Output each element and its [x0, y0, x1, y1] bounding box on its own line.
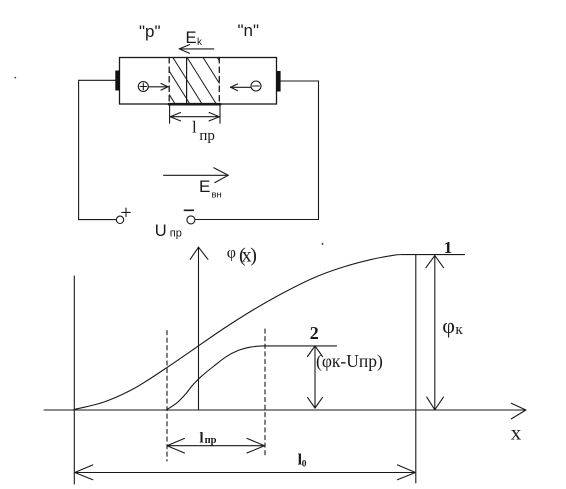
label lpr (bottom): [200, 431, 217, 447]
dimension arrow lpr (bottom, double headed): [167, 438, 265, 453]
depletion region hatch: [132, 58, 247, 105]
dimension arrow lpr (top, double headed): [170, 113, 219, 121]
svg-text:1: 1: [444, 238, 453, 257]
svg-text:(φк-Uпр): (φк-Uпр): [316, 351, 383, 371]
svg-text:"p": "p": [139, 22, 161, 41]
tick left of lpr bracket: [169, 105, 171, 124]
stray dot 2: [322, 243, 324, 245]
phi axis (vertical, arrow up): [190, 247, 208, 410]
svg-text:пр: пр: [170, 227, 182, 239]
svg-text:φ: φ: [442, 313, 455, 338]
label Upr: [155, 222, 182, 240]
wire left (from electrode down to plus terminal): [79, 80, 120, 219]
electron symbol (minus in circle): [251, 81, 261, 91]
dimension arrow (phi-k minus Upr) double headed vertical: [308, 346, 323, 408]
dashed line left depletion edge: [166, 331, 168, 462]
svg-text:l: l: [200, 431, 204, 447]
label Ek field: [186, 29, 204, 48]
plus sign: [122, 208, 131, 216]
semiconductor body rectangle: [120, 58, 277, 105]
arrow electron drift (points left): [231, 84, 251, 91]
svg-text:к: к: [455, 322, 463, 338]
hole symbol (plus in circle): [138, 82, 148, 92]
svg-text:k: k: [197, 37, 203, 48]
tick right of lpr bracket: [219, 105, 221, 124]
svg-text:E: E: [186, 29, 197, 47]
label phi-k: [442, 313, 463, 338]
stray dot: [14, 77, 16, 79]
thick depletion width baseline: [169, 103, 220, 106]
svg-text:2: 2: [310, 323, 319, 343]
dashed line right depletion edge: [264, 329, 266, 458]
depletion boundary left (dashed): [168, 58, 170, 105]
plus terminal circle: [116, 216, 123, 223]
svg-text:пр: пр: [199, 128, 215, 144]
electrode right: [276, 71, 280, 92]
label Evn: [199, 177, 222, 201]
svg-text:U: U: [155, 222, 167, 240]
junction line: [186, 58, 188, 105]
arrow hole drift (points right): [149, 84, 168, 91]
svg-text:E: E: [199, 177, 210, 196]
svg-text:вн: вн: [212, 190, 222, 201]
electrode left: [115, 71, 120, 91]
svg-text:x: x: [511, 420, 522, 444]
svg-text:): ): [250, 245, 257, 267]
minus sign: [184, 209, 193, 211]
arrow Evn (points right): [164, 168, 229, 183]
minus terminal circle: [187, 216, 195, 224]
svg-text:пр: пр: [205, 435, 217, 446]
wire right (from electrode down to minus terminal): [195, 81, 319, 220]
x axis (arrow right): [44, 403, 526, 419]
arrow Ek (points left): [179, 45, 214, 54]
curve 2 potential with forward bias: [167, 346, 337, 410]
dimension arrow phi-k (double headed vertical): [426, 256, 444, 410]
depletion boundary right (dashed): [218, 58, 220, 105]
svg-text:φ: φ: [227, 244, 236, 261]
right boundary vertical line l0: [415, 255, 417, 483]
svg-text:"n": "n": [238, 21, 260, 40]
label phi(x): [227, 244, 257, 266]
svg-text:0: 0: [302, 460, 307, 470]
label l0: [298, 452, 307, 470]
left boundary vertical line l0: [73, 276, 75, 484]
label lpr (top): [192, 118, 215, 144]
dimension arrow l0 (double headed): [75, 465, 416, 480]
curve 1 potential without bias: [74, 255, 465, 410]
svg-text:l: l: [192, 118, 197, 137]
label (phi-k minus Upr): [316, 351, 383, 371]
